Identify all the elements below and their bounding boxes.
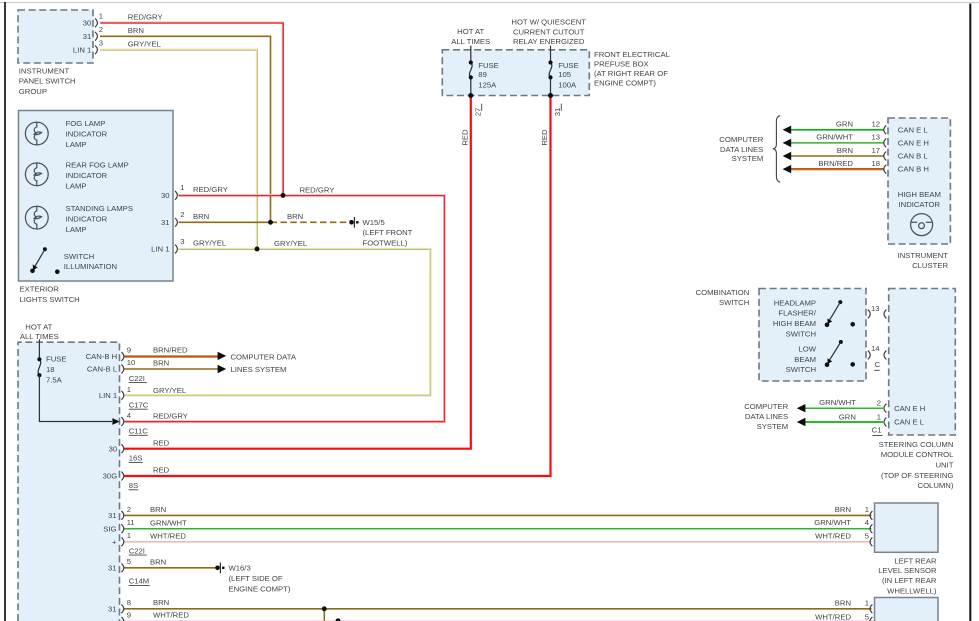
svg-text:PREFUSE BOX: PREFUSE BOX	[594, 59, 649, 68]
svg-text:9: 9	[127, 345, 131, 354]
svg-text:CAN E L: CAN E L	[894, 418, 925, 427]
svg-text:30: 30	[109, 444, 118, 453]
label: FUSE 105 100A	[558, 61, 579, 90]
headlamp flasher / high beam switch symbol	[825, 300, 855, 327]
arrow computer data lines BRN/RED	[783, 165, 792, 173]
svg-text:BRN: BRN	[835, 598, 851, 607]
svg-text:GRN/WHT: GRN/WHT	[814, 518, 851, 527]
box: fuse 18 supply box (dashed, cut at bottom)	[18, 342, 120, 621]
svg-text:WHELLWELL): WHELLWELL)	[887, 586, 937, 595]
label: INSTRUMENT PANEL SWITCH GROUP	[19, 66, 76, 96]
svg-text:C22I: C22I	[129, 374, 145, 383]
svg-text:FUSE: FUSE	[46, 354, 67, 363]
wire BRN instrument cluster pin 17	[791, 155, 884, 157]
svg-text:ILLUMINATION: ILLUMINATION	[64, 262, 117, 271]
svg-text:RED/GRY: RED/GRY	[300, 185, 335, 194]
svg-text:GRY/YEL: GRY/YEL	[128, 40, 162, 49]
svg-text:DATA LINES: DATA LINES	[720, 145, 763, 154]
svg-text:HEADLAMP: HEADLAMP	[774, 298, 816, 307]
svg-text:BRN/RED: BRN/RED	[818, 159, 853, 168]
label: FRONT ELECTRICAL PREFUSE BOX (AT RIGHT REAR OF ENGINE COMPT)	[594, 50, 671, 88]
svg-text:(IN LEFT REAR: (IN LEFT REAR	[882, 576, 937, 585]
svg-text:13: 13	[871, 133, 880, 142]
svg-text:FLASHER/: FLASHER/	[778, 309, 816, 318]
label: STEERING COLUMN MODULE CONTROL UNIT (TOP OF STEERING COLUMN)	[879, 440, 954, 490]
svg-text:RED: RED	[540, 129, 549, 146]
svg-text:SWITCH: SWITCH	[786, 365, 816, 374]
svg-text:INDICATOR: INDICATOR	[66, 215, 108, 224]
svg-text:ALL TIMES: ALL TIMES	[20, 332, 59, 341]
svg-text:STEERING COLUMN: STEERING COLUMN	[879, 440, 954, 449]
node D junction (BRN row 8)	[322, 606, 327, 611]
junction below fuse 89	[468, 93, 473, 98]
svg-text:CAN-B L: CAN-B L	[87, 365, 118, 374]
low beam switch symbol	[825, 340, 855, 367]
svg-text:1: 1	[865, 505, 869, 514]
wire GRN steering column module pin 1	[804, 421, 883, 423]
wire GRY/YEL from instrument panel switch group pin LIN1 down to node C	[99, 49, 257, 249]
svg-text:SWITCH: SWITCH	[64, 252, 94, 261]
arrow computer data lines steering GRN/WHT	[797, 404, 806, 412]
svg-text:RELAY ENERGIZED: RELAY ENERGIZED	[513, 37, 585, 46]
svg-text:(AT RIGHT REAR OF: (AT RIGHT REAR OF	[594, 69, 668, 78]
pins 1/5 of right rear level sensor	[870, 604, 872, 621]
wire labels BRN GRN/WHT WHT/RED (sensor 1 side)	[814, 505, 851, 540]
wire labels GRN/WHT GRN (steering rows)	[819, 398, 856, 421]
wire BRN dashed stub from node B to terminal W15/5	[271, 221, 351, 223]
svg-text:INSTRUMENT: INSTRUMENT	[19, 66, 70, 75]
svg-text:31: 31	[553, 108, 562, 117]
arrow computer data lines BRN	[783, 152, 792, 160]
svg-text:(LEFT FRONT: (LEFT FRONT	[363, 228, 413, 237]
label: INSTRUMENT CLUSTER	[898, 251, 949, 270]
circuit number 27 (vertical)	[473, 104, 482, 117]
node A junction (RED/GRY)	[281, 193, 286, 198]
box: FRONT ELECTRICAL PREFUSE BOX (dashed)	[442, 50, 589, 96]
svg-text:HOT AT: HOT AT	[25, 322, 52, 331]
svg-text:WHT/RED: WHT/RED	[815, 531, 851, 540]
svg-text:INDICATOR: INDICATOR	[66, 129, 108, 138]
label: HIGH BEAM INDICATOR	[898, 190, 941, 209]
box: INSTRUMENT CLUSTER (dashed)	[888, 118, 950, 244]
svg-text:31: 31	[161, 218, 170, 227]
svg-text:2: 2	[99, 25, 103, 34]
svg-text:100A: 100A	[558, 80, 577, 89]
pin numbers 1/4/5 (left rear level sensor)	[865, 505, 870, 540]
arrow computer data lines GRN/WHT	[783, 139, 792, 147]
box: INSTRUMENT PANEL SWITCH GROUP (dashed connector box)	[18, 10, 93, 63]
svg-text:31: 31	[83, 32, 92, 41]
svg-text:WHT/RED: WHT/RED	[153, 611, 189, 620]
svg-text:12: 12	[871, 120, 880, 129]
svg-text:+: +	[112, 537, 117, 546]
pin numbers 1/5 (right rear level sensor)	[865, 598, 869, 621]
svg-text:LINES SYSTEM: LINES SYSTEM	[231, 365, 287, 374]
svg-text:BRN: BRN	[835, 505, 851, 514]
wire RED/GRY from instrument panel switch group pin 30 down to node A	[100, 22, 284, 195]
svg-text:WHT/RED: WHT/RED	[815, 613, 851, 621]
svg-text:COMPUTER: COMPUTER	[744, 402, 788, 411]
svg-text:18: 18	[46, 365, 55, 374]
svg-text:105: 105	[558, 70, 571, 79]
label: HOT AT ALL TIMES (prefuse)	[451, 27, 490, 46]
svg-text:HIGH BEAM: HIGH BEAM	[773, 319, 816, 328]
arrow to computer data lines (pin 9)	[218, 352, 227, 360]
svg-text:EXTERIOR: EXTERIOR	[20, 285, 60, 294]
svg-text:FOOTWELL): FOOTWELL)	[363, 238, 408, 247]
svg-text:GRY/YEL: GRY/YEL	[274, 239, 308, 248]
svg-text:ENGINE COMPT): ENGINE COMPT)	[229, 584, 291, 593]
page right border line	[969, 4, 971, 621]
wire RED from fuse 105 down to fuse-box pin 30G	[124, 96, 551, 477]
svg-text:REAR FOG LAMP: REAR FOG LAMP	[66, 161, 129, 170]
wire BRN/RED instrument cluster pin 18	[791, 169, 884, 170]
svg-text:FUSE: FUSE	[478, 61, 499, 70]
wire colour RED vertical label (fuse 89)	[460, 129, 469, 146]
label: LOW BEAM SWITCH	[786, 345, 817, 375]
label: HOT AT ALL TIMES (fuse 18)	[20, 322, 59, 341]
node C junction (GRY/YEL)	[255, 247, 260, 252]
terminal W16/3	[215, 562, 224, 573]
svg-text:11: 11	[127, 518, 135, 527]
svg-text:GRN/WHT: GRN/WHT	[150, 519, 187, 528]
label: HOT W/ QUIESCENT CURRENT CUTOUT RELAY ENERGIZED	[511, 18, 586, 47]
svg-text:COMPUTER DATA: COMPUTER DATA	[231, 352, 297, 361]
pin numbers 1/2/3 (instrument panel switch group)	[99, 11, 103, 47]
svg-text:CURRENT CUTOUT: CURRENT CUTOUT	[513, 28, 585, 37]
svg-text:SIG: SIG	[103, 524, 116, 533]
svg-text:5: 5	[865, 531, 869, 540]
label: COMBINATION SWITCH	[696, 288, 750, 307]
junction below fuse 105	[548, 93, 553, 98]
wire GRN instrument cluster pin 12	[791, 129, 884, 131]
wire labels BRN WHT/RED (sensor 2 side)	[815, 598, 851, 621]
label: FUSE 18 7.5A	[46, 354, 67, 384]
label: COMPUTER DATA LINES SYSTEM (left)	[231, 352, 297, 373]
connector label C22I (bottom)	[129, 546, 147, 555]
wire BRN from fuse-box pin 5 to terminal W16/3	[124, 567, 216, 569]
svg-text:FUSE: FUSE	[558, 61, 579, 70]
svg-text:BEAM: BEAM	[794, 355, 816, 364]
svg-text:BRN: BRN	[150, 557, 166, 566]
connector labels C22I C17C C11C 16S 8S	[129, 374, 149, 490]
arrow computer data lines GRN	[783, 126, 792, 134]
svg-text:9: 9	[127, 610, 131, 619]
svg-text:COMBINATION: COMBINATION	[696, 288, 750, 297]
box: COMBINATION SWITCH (dashed)	[759, 289, 866, 382]
pin labels 31 / SIG / +	[103, 511, 117, 546]
svg-text:CLUSTER: CLUSTER	[912, 261, 948, 270]
svg-text:SYSTEM: SYSTEM	[757, 422, 789, 431]
svg-text:SWITCH: SWITCH	[719, 298, 749, 307]
connector label C14M	[129, 577, 150, 586]
wire BRN/RED from fuse-box pin 9 to computer data lines arrow	[124, 356, 218, 357]
wire labels BRN/RED BRN (computer data rows)	[153, 346, 188, 368]
svg-text:FRONT ELECTRICAL: FRONT ELECTRICAL	[594, 50, 671, 59]
switch illumination symbol	[30, 247, 59, 274]
svg-text:4: 4	[127, 411, 132, 420]
pin numbers 12/13/17/18 (cluster)	[871, 120, 880, 168]
pin numbers 1/2/3 (exterior lights switch)	[180, 183, 184, 246]
label: EXTERIOR LIGHTS SWITCH	[20, 285, 80, 304]
svg-text:2: 2	[127, 505, 131, 514]
svg-text:1: 1	[127, 531, 131, 540]
svg-text:CAN E H: CAN E H	[894, 404, 925, 413]
svg-text:LIN 1: LIN 1	[151, 245, 169, 254]
labels CAN E L / CAN E H / CAN B L / CAN B H	[898, 125, 929, 173]
svg-text:DATA LINES: DATA LINES	[745, 412, 788, 421]
svg-text:BRN: BRN	[150, 505, 166, 514]
svg-text:W15/5: W15/5	[363, 218, 385, 227]
svg-text:17: 17	[871, 146, 880, 155]
pins 13/14 of combination switch	[868, 310, 870, 360]
svg-text:2: 2	[877, 399, 881, 408]
pins 13/14/2/1 of steering column module	[884, 310, 886, 427]
pin label LIN 1 (fuse box)	[99, 391, 117, 400]
pins 1/4/5 of left rear level sensor	[870, 511, 872, 546]
rear fog lamp indicator lamp symbol	[25, 163, 48, 186]
pin labels CAN-B H / CAN-B L	[86, 352, 118, 374]
wire labels GRY/YEL RED/GRY RED RED (fuse box rows)	[153, 386, 188, 475]
svg-text:125A: 125A	[478, 80, 497, 89]
svg-text:SYSTEM: SYSTEM	[732, 154, 764, 163]
svg-text:C11C: C11C	[129, 427, 149, 436]
wire BRN from instrument panel switch group pin 31 down to node B	[100, 36, 271, 222]
svg-text:RED/GRY: RED/GRY	[128, 13, 163, 22]
svg-text:PANEL SWITCH: PANEL SWITCH	[19, 77, 76, 86]
svg-text:GROUP: GROUP	[19, 87, 47, 96]
svg-text:CAN E L: CAN E L	[898, 125, 929, 134]
label: SWITCH ILLUMINATION	[64, 252, 117, 271]
wire labels GRN GRN/WHT BRN BRN/RED (cluster rows)	[816, 120, 853, 168]
standing lamps indicator lamp symbol	[25, 206, 48, 229]
label: COMPUTER DATA LINES SYSTEM (steering)	[744, 402, 788, 431]
svg-text:C17C: C17C	[129, 400, 149, 409]
wire GRN/WHT fuse-box pin 11 to left rear level sensor pin 4	[124, 528, 872, 530]
svg-text:STANDING LAMPS: STANDING LAMPS	[66, 204, 133, 213]
svg-text:RED/GRY: RED/GRY	[153, 411, 188, 420]
svg-text:RED: RED	[460, 129, 469, 146]
svg-text:BRN: BRN	[153, 359, 169, 368]
pin numbers 13/14 and connector C	[871, 304, 881, 370]
svg-text:1: 1	[127, 385, 131, 394]
fuse 18 symbol	[37, 339, 41, 377]
wire WHT/RED fuse-box pin 1 to left rear level sensor pin 5	[124, 541, 872, 543]
label: FUSE 89 125A	[478, 61, 499, 90]
svg-text:LAMP: LAMP	[66, 181, 87, 190]
wire labels BRN WHT/RED (bottom rows 8/9)	[153, 598, 189, 619]
arrow to computer data lines (pin 10)	[218, 365, 227, 373]
wire GRN/WHT steering column module pin 2	[804, 407, 883, 409]
svg-text:INDICATOR: INDICATOR	[66, 171, 108, 180]
brace for computer data lines system (cluster)	[773, 116, 781, 183]
label: HEADLAMP FLASHER/ HIGH BEAM SWITCH	[773, 298, 817, 338]
svg-text:4: 4	[865, 518, 870, 527]
wire BRN from exterior lights switch pin 31 to node B	[179, 221, 271, 223]
pins 9/10/1/4/30/30G/2/11/1/5/8/9 of fuse-box	[121, 352, 123, 621]
junction on WHT/RED row 9	[336, 618, 341, 621]
wire BRN stub down from node D	[323, 609, 325, 621]
svg-text:16S: 16S	[129, 454, 143, 463]
pin numbers 2/1 and connector C1 (steering)	[872, 399, 883, 436]
svg-text:LEFT REAR: LEFT REAR	[894, 556, 937, 565]
page top border line	[0, 2, 979, 4]
svg-text:GRY/YEL: GRY/YEL	[193, 239, 227, 248]
svg-text:BRN: BRN	[287, 212, 303, 221]
svg-text:UNIT: UNIT	[935, 461, 953, 470]
svg-text:GRN/WHT: GRN/WHT	[819, 398, 856, 407]
svg-text:MODULE CONTROL: MODULE CONTROL	[881, 450, 954, 459]
svg-text:CAN B H: CAN B H	[898, 165, 929, 174]
svg-text:1: 1	[877, 413, 881, 422]
wire RED/GRY from exterior lights switch pin 30 across and down to fuse-box pin 4	[124, 195, 445, 422]
wire WHT/RED fuse-box pin 9 to right rear level sensor pin 5	[124, 620, 872, 621]
svg-text:COMPUTER: COMPUTER	[719, 135, 763, 144]
svg-text:GRY/YEL: GRY/YEL	[153, 386, 187, 395]
high beam indicator lamp symbol (instrument cluster)	[911, 214, 933, 236]
wire labels RED/GRY BRN GRY/YEL (top)	[128, 13, 163, 49]
svg-text:HOT W/ QUIESCENT: HOT W/ QUIESCENT	[511, 18, 586, 27]
svg-text:HOT AT: HOT AT	[457, 27, 484, 36]
svg-text:2: 2	[180, 210, 184, 219]
svg-text:RED: RED	[153, 466, 170, 475]
svg-text:14: 14	[871, 344, 880, 353]
svg-text:CAN E H: CAN E H	[898, 139, 929, 148]
labels CAN E H / CAN E L (steering)	[894, 404, 925, 427]
label: REAR FOG LAMP INDICATOR LAMP	[66, 161, 129, 191]
wire GRY/YEL from exterior lights switch pin LIN1 across and down to fuse-box pin 1	[123, 248, 430, 395]
svg-text:1: 1	[99, 11, 103, 20]
pin label 31 (pin 8)	[108, 604, 117, 613]
svg-text:BRN: BRN	[128, 26, 144, 35]
dark wire from fuse 18 to fuse-box pin 4 with arrow	[39, 375, 119, 425]
svg-text:LIN 1: LIN 1	[99, 391, 117, 400]
svg-text:27: 27	[473, 108, 482, 117]
svg-text:1: 1	[865, 598, 869, 607]
svg-text:30G: 30G	[103, 472, 118, 481]
label: STANDING LAMPS INDICATOR LAMP	[66, 204, 133, 234]
svg-text:18: 18	[871, 159, 880, 168]
svg-text:GRN: GRN	[839, 413, 856, 422]
svg-text:LEVEL SENSOR: LEVEL SENSOR	[878, 566, 937, 575]
svg-text:LAMP: LAMP	[66, 140, 87, 149]
svg-text:BRN: BRN	[153, 598, 169, 607]
pins 12/13/17/18 of instrument cluster	[884, 125, 886, 173]
box: EXTERIOR LIGHTS SWITCH (solid box)	[19, 111, 174, 282]
wire BRN from fuse-box pin 10 to computer data lines arrow	[124, 368, 218, 370]
svg-text:10: 10	[127, 358, 136, 367]
label: LEFT REAR LEVEL SENSOR (IN LEFT REAR WHELLWELL)	[878, 556, 937, 595]
fuse 89 symbol	[469, 46, 473, 96]
node B junction (BRN)	[268, 220, 273, 225]
pin numbers 9/10/1/4 (fuse box)	[127, 345, 136, 420]
pin label 31 (pin 5)	[108, 563, 117, 572]
svg-text:SWITCH: SWITCH	[786, 329, 816, 338]
svg-text:3: 3	[180, 237, 184, 246]
circuit number 31 (vertical)	[553, 104, 562, 117]
svg-text:ALL TIMES: ALL TIMES	[451, 37, 490, 46]
label: FOG LAMP INDICATOR LAMP	[66, 119, 108, 149]
label: W15/5 (LEFT FRONT FOOTWELL)	[363, 218, 413, 247]
box: LEFT REAR LEVEL SENSOR (solid)	[875, 503, 939, 552]
wire BRN fuse-box pin 2 to left rear level sensor pin 1	[124, 514, 872, 516]
label: COMPUTER DATA LINES SYSTEM (cluster)	[719, 135, 763, 163]
svg-text:C22I: C22I	[129, 546, 145, 555]
wire labels BRN GRN/WHT WHT/RED (bottom left rows)	[150, 505, 187, 541]
label: W16/3 (LEFT SIDE OF ENGINE COMPT)	[229, 564, 291, 594]
terminal W15/5	[349, 217, 358, 228]
svg-text:COLUMN): COLUMN)	[918, 481, 954, 490]
svg-text:LIGHTS SWITCH: LIGHTS SWITCH	[20, 295, 80, 304]
wire GRN/WHT instrument cluster pin 13	[791, 142, 884, 144]
fuse 105 symbol	[548, 46, 552, 96]
pins 30/31/LIN1 of instrument panel switch group	[95, 18, 97, 54]
svg-text:30: 30	[161, 191, 170, 200]
svg-text:GRN: GRN	[836, 120, 853, 129]
svg-text:RED: RED	[153, 438, 170, 447]
svg-text:HIGH BEAM: HIGH BEAM	[898, 190, 941, 199]
page left border line	[4, 2, 6, 621]
wire colour RED vertical label (fuse 105)	[540, 129, 549, 146]
svg-text:5: 5	[127, 557, 131, 566]
svg-text:31: 31	[108, 563, 117, 572]
svg-text:5: 5	[865, 613, 869, 621]
svg-text:3: 3	[99, 38, 103, 47]
svg-text:LIN 1: LIN 1	[73, 45, 91, 54]
pin labels 30/31/LIN 1 (exterior lights switch)	[151, 191, 169, 254]
svg-text:13: 13	[871, 304, 880, 313]
pin labels 30 / 30G	[103, 444, 118, 480]
pin labels 30/31/LIN 1 (instrument panel switch group)	[73, 18, 91, 54]
box: RIGHT REAR LEVEL SENSOR (solid, cut at bottom)	[875, 598, 939, 621]
svg-text:GRN/WHT: GRN/WHT	[816, 133, 853, 142]
svg-text:C: C	[875, 360, 881, 369]
svg-text:BRN: BRN	[193, 212, 209, 221]
svg-text:FOG LAMP: FOG LAMP	[66, 119, 106, 128]
svg-text:89: 89	[478, 70, 487, 79]
svg-text:WHT/RED: WHT/RED	[150, 532, 186, 541]
svg-text:8: 8	[127, 598, 131, 607]
wire BRN fuse-box pin 8 to right rear level sensor pin 1	[124, 608, 872, 610]
pin numbers 2/11/1/5/8/9 (fuse box)	[127, 505, 135, 620]
svg-text:C1: C1	[872, 426, 882, 435]
fog lamp indicator lamp symbol	[25, 122, 48, 145]
wire RED from fuse 89 down to fuse-box pin 30	[124, 96, 471, 449]
svg-text:INDICATOR: INDICATOR	[899, 200, 941, 209]
svg-text:CAN B L: CAN B L	[898, 152, 929, 161]
svg-text:CAN-B H: CAN-B H	[86, 352, 118, 361]
svg-text:31: 31	[108, 604, 117, 613]
svg-text:30: 30	[83, 18, 92, 27]
svg-text:LOW: LOW	[798, 345, 816, 354]
wire labels RED/GRY BRN GRY/YEL (exterior switch rows)	[193, 185, 228, 248]
svg-text:INSTRUMENT: INSTRUMENT	[898, 251, 949, 260]
svg-text:C14M: C14M	[129, 577, 150, 586]
svg-text:BRN: BRN	[837, 146, 853, 155]
svg-text:7.5A: 7.5A	[46, 375, 63, 384]
svg-text:ENGINE COMPT): ENGINE COMPT)	[594, 78, 656, 87]
svg-text:(LEFT SIDE OF: (LEFT SIDE OF	[229, 574, 283, 583]
svg-text:RED/GRY: RED/GRY	[193, 185, 228, 194]
svg-text:1: 1	[180, 183, 184, 192]
svg-text:LAMP: LAMP	[66, 225, 87, 234]
box: STEERING COLUMN MODULE CONTROL UNIT (dashed)	[889, 289, 956, 436]
svg-text:(TOP OF STEERING: (TOP OF STEERING	[881, 471, 953, 480]
arrow computer data lines steering GRN	[797, 418, 806, 426]
svg-text:BRN/RED: BRN/RED	[153, 346, 188, 355]
svg-text:W16/3: W16/3	[229, 564, 251, 573]
pins 30/31/LIN1 of exterior lights switch	[175, 191, 177, 253]
